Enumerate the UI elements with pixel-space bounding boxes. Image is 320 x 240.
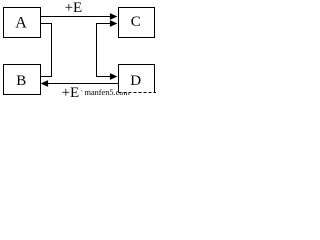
svg-text:C: C	[131, 14, 141, 30]
svg-text:+E: +E	[65, 0, 83, 16]
box B	[4, 65, 41, 95]
wire A to C	[41, 16, 111, 18]
arrowhead into C (top)	[110, 13, 118, 20]
block diagram: four boxes A,B,C,D with arrows and +E labels	[0, 0, 156, 97]
arrowhead into D	[110, 73, 118, 80]
box A	[4, 8, 41, 38]
svg-text:A: A	[15, 14, 27, 31]
arrowhead into B	[41, 80, 49, 87]
wire fork to C and D (elbow)	[97, 24, 111, 77]
wire A down to B (elbow)	[41, 24, 52, 77]
svg-text:+E: +E	[62, 85, 80, 97]
svg-text:D: D	[130, 73, 141, 89]
arrowhead into C (lower)	[110, 20, 118, 27]
watermark manfen5.com	[81, 90, 83, 92]
box D (open bottom, dashed bottom line)	[119, 65, 155, 93]
box C	[119, 8, 155, 38]
wire D to B	[47, 83, 118, 85]
svg-text:B: B	[16, 73, 26, 89]
dashed line under D	[119, 92, 157, 94]
